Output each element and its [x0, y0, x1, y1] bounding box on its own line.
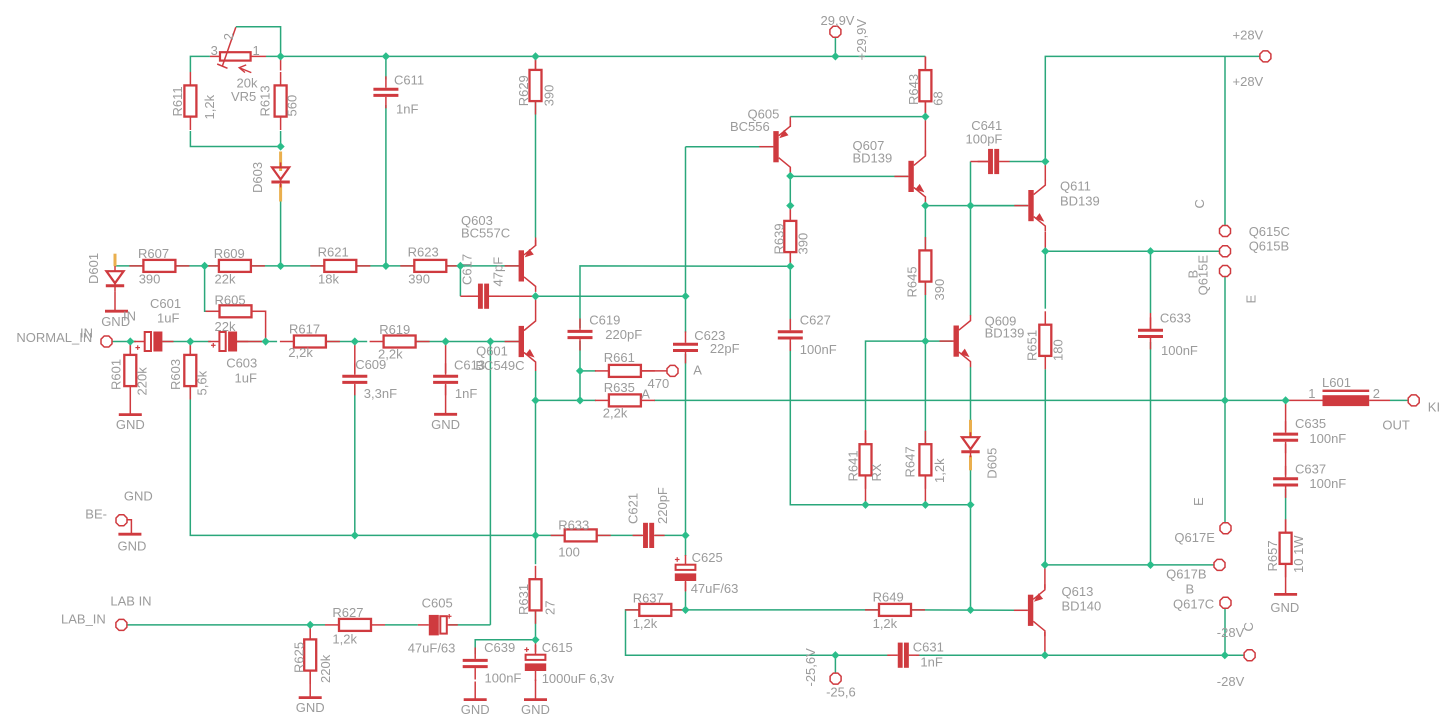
wire C603 right pin — [237, 341, 262, 343]
svg-text:GND: GND — [521, 702, 550, 717]
wire R631 bottom — [535, 595, 537, 640]
svg-text:BC557C: BC557C — [461, 226, 510, 241]
wire bias row IN2 net — [115, 265, 143, 267]
svg-text:Q617C: Q617C — [1173, 597, 1214, 612]
svg-text:100nF: 100nF — [1309, 476, 1346, 491]
transistor Q613 BD140 — [1014, 584, 1045, 636]
resistor R639 390 — [772, 208, 811, 266]
capacitor C641 100pF — [978, 149, 1010, 174]
resistor R645 390 — [905, 237, 948, 301]
svg-text:E: E — [1244, 295, 1259, 304]
wire R649 to Q613 base — [911, 609, 1028, 611]
svg-text:47uF/63: 47uF/63 — [691, 581, 739, 596]
svg-text:100nF: 100nF — [1309, 431, 1346, 446]
svg-text:1,2k: 1,2k — [633, 616, 658, 631]
svg-text:GND: GND — [461, 702, 490, 717]
wire C639 to GND — [474, 682, 476, 700]
junction C633 bottom / Q617B — [1146, 561, 1154, 569]
terminal Q615E — [1220, 266, 1231, 277]
junction feedback at Q601 emitter — [531, 396, 539, 404]
svg-text:2: 2 — [1373, 386, 1380, 401]
terminal LAB_IN — [116, 619, 127, 630]
svg-text:C603: C603 — [226, 356, 257, 371]
wire -25,6V stub — [834, 655, 836, 673]
svg-text:R625: R625 — [292, 642, 307, 673]
junction R647 bottom — [921, 501, 929, 509]
wire bias junction drop to R605 — [205, 266, 220, 311]
wire Q601 collector — [535, 296, 537, 315]
resistor R631 27 — [516, 566, 558, 624]
junction C619 bottom / R661 — [576, 367, 584, 375]
svg-text:10 1W: 10 1W — [1291, 535, 1306, 573]
junction Q613 emitter / R651 — [1041, 561, 1049, 569]
svg-text:-28V: -28V — [1217, 674, 1245, 689]
svg-text:R641: R641 — [846, 450, 861, 481]
svg-text:Q615E: Q615E — [1196, 255, 1211, 296]
wire Q603 emitter pin — [535, 238, 537, 247]
svg-text:C609: C609 — [355, 357, 386, 372]
wire feedback junction down — [535, 400, 537, 535]
svg-text:220k: 220k — [318, 654, 333, 683]
svg-text:180: 180 — [1051, 339, 1066, 361]
capacitor C611 1nF — [373, 76, 398, 108]
svg-text:27: 27 — [543, 601, 558, 615]
wire Q605 emitter pin — [789, 117, 791, 127]
junction LAB row at R625 — [306, 621, 314, 629]
svg-text:GND: GND — [431, 417, 460, 432]
wire +28V terminal stub — [1225, 55, 1260, 57]
wire C623 column top — [685, 147, 687, 297]
wire R657 top pin — [1285, 520, 1287, 533]
svg-text:390: 390 — [932, 279, 947, 301]
wire R641 top pin — [865, 430, 867, 445]
svg-text:C: C — [1241, 622, 1256, 631]
wire Q601 emitter to feedback — [535, 371, 537, 400]
wire R643 top drop — [924, 56, 926, 70]
svg-text:R623: R623 — [408, 244, 439, 259]
svg-text:220pF: 220pF — [655, 487, 670, 524]
svg-text:1: 1 — [253, 43, 260, 58]
svg-text:VR5: VR5 — [231, 89, 256, 104]
svg-text:R631: R631 — [516, 584, 531, 615]
wire R601 drop — [129, 342, 131, 357]
junction collector row at Q603 — [531, 292, 539, 300]
svg-text:R637: R637 — [633, 591, 664, 606]
svg-text:LAB_IN: LAB_IN — [61, 612, 106, 627]
wire R625 bottom — [309, 671, 311, 698]
svg-text:1: 1 — [1308, 386, 1315, 401]
wire Q607 collector — [924, 117, 926, 156]
resistor R649 1,2k — [865, 590, 925, 632]
wire L601 to KI terminal — [1390, 399, 1408, 401]
svg-text:C611: C611 — [394, 73, 424, 88]
svg-text:GND: GND — [118, 539, 147, 554]
svg-text:BC556: BC556 — [730, 119, 770, 134]
svg-text:C639: C639 — [484, 640, 515, 655]
resistor R651 180 — [1025, 311, 1066, 369]
svg-text:C637: C637 — [1295, 462, 1326, 477]
resistor R619 2,2k — [370, 322, 430, 362]
diode D603 — [271, 152, 289, 202]
svg-text:3,3nF: 3,3nF — [364, 386, 397, 401]
wire BE- gnd hook — [127, 520, 131, 534]
wire Q607 base wire — [790, 175, 908, 177]
wire R627 to C605 — [385, 624, 418, 626]
wire R651 bottom long — [1044, 369, 1046, 565]
junction Q605 collector / Q607 base — [786, 172, 794, 180]
ground under C615 — [521, 700, 550, 718]
wire Q611 base row — [971, 205, 1028, 207]
svg-text:100nF: 100nF — [485, 671, 522, 686]
wire Q601 emitter pin — [535, 368, 537, 372]
junction bias at C611 — [382, 262, 390, 270]
transistor Q609 BD139 — [940, 315, 971, 367]
junction R633 row at R631 — [531, 531, 539, 539]
wire R661 left pin — [580, 370, 596, 372]
resistor R627 1,2k — [325, 605, 385, 646]
wire Q613E row to Q617B — [1151, 564, 1215, 566]
resistor R647 1,2k — [903, 431, 948, 489]
junction Q607 emitter / R645 — [921, 202, 929, 210]
svg-text:C621: C621 — [626, 493, 641, 524]
svg-text:R601: R601 — [109, 359, 124, 390]
terminal Q615C — [1220, 226, 1231, 237]
svg-text:R657: R657 — [1265, 540, 1280, 571]
capacitor C637 100nF — [1273, 466, 1298, 498]
wire C619 junction down — [579, 371, 581, 401]
junction bias at C617 — [456, 262, 464, 270]
junction rail at VR5/R613 — [277, 52, 285, 60]
svg-text:C627: C627 — [800, 312, 831, 327]
wire C603 to R617 — [237, 341, 277, 343]
svg-text:BD139: BD139 — [985, 326, 1025, 341]
wire Q617C stub — [1224, 608, 1226, 655]
svg-text:IN: IN — [80, 326, 93, 341]
svg-text:C617: C617 — [460, 254, 475, 285]
svg-text:+28V: +28V — [1233, 74, 1264, 89]
junction R631 bottom / C615 / C639 — [531, 636, 539, 644]
svg-text:R633: R633 — [558, 518, 589, 533]
resistor R621 18k — [310, 244, 370, 286]
wire R661 right pin — [641, 370, 667, 372]
svg-text:390: 390 — [408, 272, 430, 287]
svg-text:D601: D601 — [86, 253, 101, 284]
wire VR5 pin2 loop — [236, 27, 281, 57]
wire C611 top — [385, 56, 387, 79]
wire Q605 emitter row — [790, 116, 925, 118]
wire C625 to R637 junction — [685, 592, 687, 610]
wire R625 drop — [309, 625, 311, 640]
svg-text:560: 560 — [285, 95, 300, 117]
wire C609 top pin — [354, 342, 356, 374]
resistor R661 470 — [595, 350, 669, 391]
terminal KI — [1408, 395, 1419, 406]
wire output row to C635 — [1225, 399, 1286, 401]
svg-text:1,2k: 1,2k — [932, 458, 947, 483]
svg-text:C635: C635 — [1295, 416, 1326, 431]
ground at BE- — [118, 533, 141, 536]
svg-text:-25,6: -25,6 — [826, 685, 856, 700]
wire C609 bottom — [354, 386, 356, 536]
wire R603 bottom long — [190, 386, 354, 536]
junction input at C613 — [442, 337, 450, 345]
wire Q611 collector pin — [1044, 162, 1046, 181]
wire R645 bottom to Q609 base — [924, 282, 926, 342]
junction R649 right / Q609 column — [966, 606, 974, 614]
wire feedback row left — [536, 399, 597, 401]
junction C641 right / Q611 collector — [1041, 157, 1049, 165]
wire Q609 junction column — [970, 505, 972, 610]
wire R603 drop — [189, 342, 191, 357]
svg-text:2,2k: 2,2k — [288, 345, 313, 360]
svg-text:100: 100 — [558, 545, 580, 560]
svg-text:220pF: 220pF — [605, 327, 642, 342]
wire C625 link — [685, 535, 687, 556]
wire R639 top pin — [789, 206, 791, 221]
svg-text:5,6k: 5,6k — [195, 370, 210, 395]
wire C633 top link — [1150, 251, 1152, 313]
svg-text:R629: R629 — [516, 75, 531, 106]
junction input at C609 — [351, 337, 359, 345]
wire C617 right to collector junction — [489, 295, 536, 297]
capacitor C609 3,3nF — [342, 363, 367, 395]
wire C619 bottom — [579, 341, 581, 371]
svg-text:22pF: 22pF — [710, 341, 740, 356]
svg-text:2,2k: 2,2k — [603, 406, 628, 421]
junction input at LAB coupling — [486, 337, 494, 345]
svg-text:GND: GND — [296, 700, 325, 715]
svg-text:1uF: 1uF — [157, 311, 179, 326]
junction R611/R613 bottom — [277, 142, 285, 150]
junction Q611 emitter / R651 — [1041, 247, 1049, 255]
svg-text:BD139: BD139 — [1060, 194, 1100, 209]
ground under D601 — [105, 310, 128, 313]
wire C625 bottom pin — [685, 582, 687, 592]
junction C633 top — [1146, 247, 1154, 255]
resistor R637 1,2k — [625, 591, 685, 631]
svg-text:Q617B: Q617B — [1166, 567, 1206, 582]
wire C635 to C637 pin — [1285, 444, 1287, 475]
svg-text:68: 68 — [931, 91, 946, 105]
ground under R601 — [116, 415, 145, 433]
svg-text:+28V: +28V — [1233, 28, 1264, 43]
terminal -25,6 — [830, 673, 841, 684]
svg-text:1,2k: 1,2k — [332, 631, 357, 646]
capacitor C621 220pF — [633, 523, 665, 548]
resistor R609 22k — [205, 246, 265, 287]
resistor R625 220k — [292, 626, 334, 684]
svg-text:R649: R649 — [873, 590, 904, 605]
svg-text:+29,9V: +29,9V — [854, 19, 869, 61]
wire output down to Q617E — [1224, 400, 1226, 523]
wire Q609 base pin — [925, 340, 952, 342]
svg-text:22k: 22k — [215, 272, 236, 287]
wire R639 bottom pin — [789, 253, 791, 267]
wire D605 bottom — [970, 464, 972, 505]
svg-text:GND: GND — [116, 417, 145, 432]
transistor Q603 BC557C — [505, 240, 536, 292]
junction at C635 — [1282, 396, 1290, 404]
svg-text:47uF/63: 47uF/63 — [408, 641, 456, 656]
junction R639 bottom / C627 top — [786, 262, 794, 270]
wire D603 to bias row — [280, 202, 282, 266]
wire C617 drop — [459, 266, 461, 296]
wire C641 left pin — [971, 161, 989, 163]
wire bias row R607-R609 — [176, 265, 220, 267]
ground under C639 — [461, 700, 490, 718]
wire LAB_IN row — [127, 624, 326, 626]
polarized capacitor C615 1000uF — [524, 645, 546, 681]
svg-text:100nF: 100nF — [800, 342, 837, 357]
svg-text:BC549C: BC549C — [475, 358, 524, 373]
transistor Q605 BC556 — [759, 121, 790, 173]
wire bias row R621-R623 — [356, 265, 414, 267]
diode D601 — [106, 254, 124, 291]
wire D601 to GND — [114, 291, 116, 311]
svg-text:1000uF 6,3v: 1000uF 6,3v — [542, 671, 615, 686]
wire Q605 base wire — [686, 146, 774, 148]
wire R629 top — [535, 56, 537, 70]
svg-text:Q601: Q601 — [476, 344, 508, 359]
wire Q609 emitter to D605 — [970, 367, 972, 432]
svg-text:R645: R645 — [905, 266, 920, 297]
svg-text:IN: IN — [123, 309, 136, 324]
resistor R635 2,2k — [595, 380, 655, 421]
junction collector row at C623 column — [681, 292, 689, 300]
junction R639 top — [786, 202, 794, 210]
svg-text:29,9V: 29,9V — [821, 13, 855, 28]
wire C627 top — [789, 266, 791, 329]
svg-text:R639: R639 — [772, 223, 787, 254]
wire C633 top pin — [1150, 313, 1152, 332]
polarized capacitor C605 47uF/63 — [418, 614, 458, 635]
terminal NORMAL_IN — [101, 336, 112, 347]
svg-text:1,2k: 1,2k — [873, 616, 898, 631]
terminal -28V — [1244, 650, 1255, 661]
resistor R607 390 — [129, 246, 189, 287]
wire Q611 collector up rail — [1045, 56, 1225, 161]
wire C601 to C603 — [162, 341, 211, 343]
wire D601 stub — [114, 254, 117, 266]
wire Q613 collector pin — [1044, 632, 1046, 655]
junction input at R603 — [186, 337, 194, 345]
junction input at R601 — [126, 337, 134, 345]
svg-text:B: B — [1186, 581, 1195, 596]
wire R641 bottom pin — [865, 476, 867, 505]
svg-text:R661: R661 — [604, 350, 635, 365]
resistor R657 10 1W — [1265, 519, 1306, 577]
polarized capacitor C601 1uF — [134, 332, 174, 352]
wire R637 left loop — [626, 610, 891, 655]
svg-text:C633: C633 — [1160, 311, 1191, 326]
wire C641 right to Q611 collector — [1010, 161, 1046, 163]
svg-text:KI: KI — [1428, 399, 1440, 414]
svg-text:1,2k: 1,2k — [202, 94, 217, 119]
svg-text:390: 390 — [542, 85, 557, 107]
wire bias row R623-Q603 base — [446, 265, 519, 267]
svg-text:Q617E: Q617E — [1174, 530, 1215, 545]
wire Q613 emitter row — [1045, 564, 1151, 566]
junction bottom rail at -25,6V — [831, 651, 839, 659]
wire C615 top — [535, 640, 537, 652]
wire VR5 pin3 to R611 — [190, 56, 210, 72]
svg-text:LAB IN: LAB IN — [110, 594, 151, 609]
svg-text:220k: 220k — [135, 367, 150, 396]
svg-text:100nF: 100nF — [1161, 343, 1198, 358]
wire Q605C junction to R639 — [789, 176, 791, 206]
svg-text:R607: R607 — [138, 246, 169, 261]
junction R641 bottom — [861, 501, 869, 509]
wire C619 top to R639 net — [580, 266, 790, 328]
transistor Q607 BD139 — [894, 150, 925, 202]
resistor R641 RX — [846, 431, 885, 489]
wire C637 to R657 — [1285, 489, 1287, 520]
svg-text:R619: R619 — [379, 322, 410, 337]
wire D601 pin — [114, 265, 116, 268]
svg-text:C: C — [1192, 199, 1207, 208]
wire R611 bottom to junction — [190, 131, 280, 147]
svg-text:1uF: 1uF — [235, 371, 257, 386]
svg-text:RX: RX — [869, 463, 884, 481]
wire C613 top pin — [445, 342, 447, 374]
wire +28V column to Q615C — [1224, 56, 1226, 226]
resistor R643 68 — [906, 57, 946, 115]
svg-text:18k: 18k — [318, 272, 339, 287]
transistor Q611 BD139 — [1014, 180, 1045, 232]
svg-text:E: E — [1191, 497, 1206, 506]
resistor R623 390 — [400, 244, 460, 286]
junction input at R605 drop — [262, 337, 270, 345]
terminal 29,9V — [830, 26, 841, 37]
junction C641 left / Q609 collector — [966, 202, 974, 210]
wire R631 top — [535, 535, 537, 564]
wire Q611E row to Q615B — [1045, 250, 1220, 252]
terminal Q617E — [1220, 523, 1231, 534]
svg-text:OUT: OUT — [1382, 417, 1410, 432]
svg-text:390: 390 — [796, 233, 811, 255]
junction bias at R605 drop — [201, 262, 209, 270]
junction output node — [1221, 396, 1229, 404]
resistor R611 1,2k — [170, 72, 217, 130]
wire Q609 base junction left loop — [866, 341, 926, 430]
svg-text:R609: R609 — [214, 246, 245, 261]
transistor Q601 BC549C — [505, 316, 536, 368]
svg-text:390: 390 — [139, 272, 161, 287]
svg-text:C615: C615 — [542, 640, 573, 655]
wire C627 bottom long — [790, 342, 970, 505]
terminal A — [667, 365, 678, 376]
junction C621 right / C625 — [681, 531, 689, 539]
wire C631 right to Q613 collector — [916, 654, 1250, 656]
wire R647 bottom pin — [924, 476, 926, 505]
wire R617 to R619 — [327, 341, 367, 343]
svg-text:Q615B: Q615B — [1249, 239, 1289, 254]
wire feedback row long — [654, 399, 1225, 401]
wire Q611 emitter drop — [1044, 232, 1046, 251]
svg-text:R617: R617 — [289, 321, 320, 336]
svg-text:Q613: Q613 — [1062, 584, 1094, 599]
wire R637 to R649 row — [671, 609, 879, 611]
svg-text:A: A — [641, 387, 650, 402]
svg-text:3: 3 — [211, 43, 218, 58]
resistor R601 220k — [109, 342, 150, 400]
svg-text:D603: D603 — [250, 162, 265, 193]
inductor L601 — [1323, 390, 1370, 407]
svg-text:C625: C625 — [692, 550, 723, 565]
wire 29,9V terminal stub — [834, 37, 836, 57]
resistor R603 5,6k — [168, 342, 210, 400]
svg-text:BE-: BE- — [85, 507, 107, 522]
